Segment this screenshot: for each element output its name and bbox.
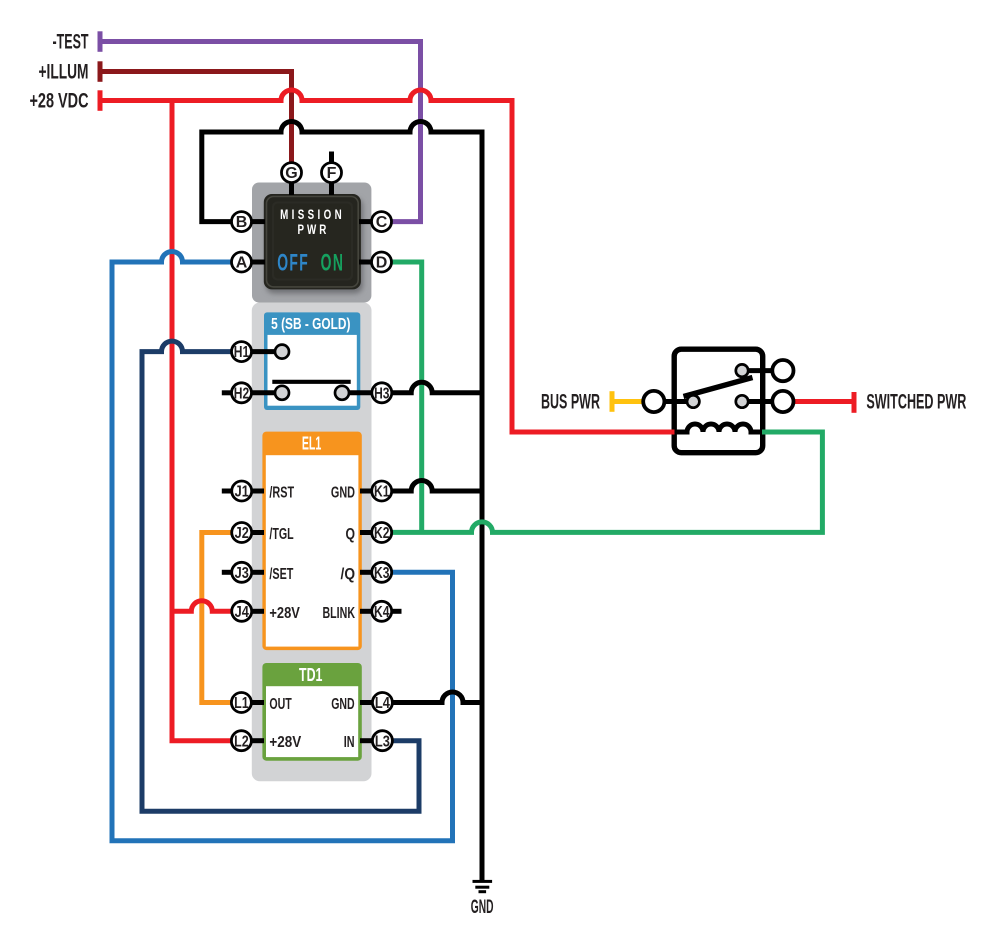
pin L2 [231,731,251,751]
stub J1 [222,489,233,494]
svg-text:BLINK: BLINK [323,605,356,622]
tab SWITCHED PWR red [852,392,857,413]
svg-text:F: F [327,165,337,182]
relay K1 body [674,349,763,453]
svg-text:A: A [236,255,248,272]
wire blue A to K3 [112,252,453,841]
stub L4 box [360,700,374,705]
breaker 5 (SB - GOLD) body [264,312,360,410]
svg-text:BUS PWR: BUS PWR [541,390,600,414]
pin J1 [232,481,252,501]
wire navy H1 to L3 [142,341,419,811]
svg-text:L3: L3 [375,733,390,750]
stub L2 box [250,738,264,743]
svg-text:J1: J1 [235,484,249,501]
stub K4 [390,609,402,614]
svg-text:G: G [285,165,297,182]
svg-text:OFF: OFF [277,250,309,277]
stub pin D [359,260,374,265]
svg-text:J3: J3 [235,565,249,582]
relay contact NC [736,364,748,376]
svg-text:IN: IN [344,734,355,751]
stub relay NC to top terminal [745,368,773,373]
svg-text:/Q: /Q [341,566,356,583]
pin K2 [372,523,392,543]
stub H2 [222,390,233,395]
svg-text:+ILLUM: +ILLUM [39,60,89,84]
svg-text:Q: Q [346,526,356,543]
stub pin C [359,219,374,224]
svg-text:GND: GND [331,696,354,713]
stub J3 [222,570,233,575]
svg-text:D: D [376,255,388,272]
pin L3 [372,731,392,751]
stub K3 box [360,570,374,575]
pin A [232,252,252,272]
svg-text:+28 VDC: +28 VDC [30,89,89,113]
timer TD1 body [262,663,361,761]
svg-text:J2: J2 [235,525,249,542]
svg-text:+28V: +28V [269,605,300,622]
panel mounting plate top (switch section) [252,183,371,303]
svg-text:H1: H1 [234,344,249,361]
pin F [322,163,342,183]
stub J3 box [250,570,264,575]
wire green D riser [391,262,422,530]
stub K1 box [360,489,374,494]
svg-text:GND: GND [471,897,494,918]
svg-text:5 (SB - GOLD): 5 (SB - GOLD) [271,316,350,333]
stub L1 box [250,700,264,705]
stub H2 contact [250,390,278,395]
svg-text:PWR: PWR [297,221,329,237]
stub relay common to BUS terminal [664,399,690,404]
relay terminal BUS [643,391,664,412]
pin B [232,212,252,232]
wire black K1 to GND rail [391,481,484,492]
svg-text:B: B [236,214,248,231]
stub F [329,152,334,166]
svg-text:OUT: OUT [269,696,292,713]
relay terminal top [772,360,793,381]
switch MISSION PWR body [264,194,363,293]
breaker contact H1 [275,345,289,359]
svg-text:H2: H2 [234,385,249,402]
svg-text:L1: L1 [234,695,249,712]
stub pin F [329,180,334,195]
relay coil [675,424,763,432]
wire red SWITCHED PWR [794,399,853,404]
svg-text:SWITCHED PWR: SWITCHED PWR [866,390,966,414]
pin G [282,163,302,183]
svg-text:J4: J4 [235,604,249,621]
pin J4 [232,601,252,621]
tab -TEST [98,31,103,52]
svg-text:TD1: TD1 [299,664,322,685]
svg-text:C: C [376,214,388,231]
pin K3 [372,562,392,582]
svg-text:/TGL: /TGL [269,526,293,543]
svg-text:GND: GND [331,485,355,502]
svg-text:K3: K3 [374,565,389,582]
svg-text:/SET: /SET [269,566,293,583]
pin H1 [232,342,252,362]
wire +ILLUM dark red to pin G [99,72,292,165]
wire green K2 to relay coil [391,432,822,532]
latch EL1 body [262,432,361,650]
wire orange J2 to L1 [202,533,232,703]
pin L1 [231,693,251,713]
wire red riser to L2 [172,98,232,741]
pin L4 [372,693,392,713]
wire red branch to J4 [170,601,233,612]
svg-text:K2: K2 [374,525,389,542]
svg-text:/RST: /RST [269,485,294,502]
svg-text:L2: L2 [234,733,249,750]
svg-text:EL1: EL1 [302,433,322,454]
relay terminal SWITCHED [772,391,793,412]
stub K4 box [360,609,374,614]
pin C [372,212,392,232]
wire black L4 to GND rail [392,692,484,703]
stub J2 box [250,530,264,535]
panel mounting plate bottom (module section) [252,303,372,782]
svg-text:K4: K4 [374,604,389,621]
stub K2 box [360,530,374,535]
svg-text:ON: ON [321,250,345,277]
stub J1 box [250,489,264,494]
wire black net B to GND rail [202,122,482,883]
wire +28 VDC red main to relay coil [99,90,676,432]
svg-text:K1: K1 [374,484,389,501]
wire yellow BUS PWR [613,399,644,404]
wire -TEST purple to pin C [99,42,421,222]
relay contact common [687,395,699,407]
breaker contact H2 [275,386,289,400]
ground symbol [473,880,493,893]
pin H3 [372,383,392,403]
stub pin A [250,260,265,265]
stub pin B [250,219,265,224]
stub H3 contact [346,390,374,395]
tab BUS PWR yellow [610,391,615,412]
stub J4 box [250,609,264,614]
relay blade [684,378,753,397]
stub pin G [289,180,294,195]
breaker contact H3 [335,386,349,400]
stub H1 contact [250,349,278,354]
pin K1 [372,481,392,501]
pin K4 [372,601,392,621]
svg-text:L4: L4 [375,695,390,712]
tab +28 VDC [98,90,103,111]
pin D [372,252,392,272]
pin J3 [232,562,252,582]
svg-text:-TEST: -TEST [53,30,89,54]
pin J2 [232,523,252,543]
wire black H3 to GND rail [391,382,484,393]
pin H2 [232,383,252,403]
tab +ILLUM [98,61,103,82]
relay contact NO [736,395,748,407]
svg-text:MISSION: MISSION [280,206,345,222]
breaker blade (closed) [272,380,350,384]
svg-text:H3: H3 [374,385,389,402]
stub L3 box [360,738,374,743]
svg-text:+28V: +28V [269,734,301,751]
stub relay NO to SWITCHED terminal [745,399,773,404]
